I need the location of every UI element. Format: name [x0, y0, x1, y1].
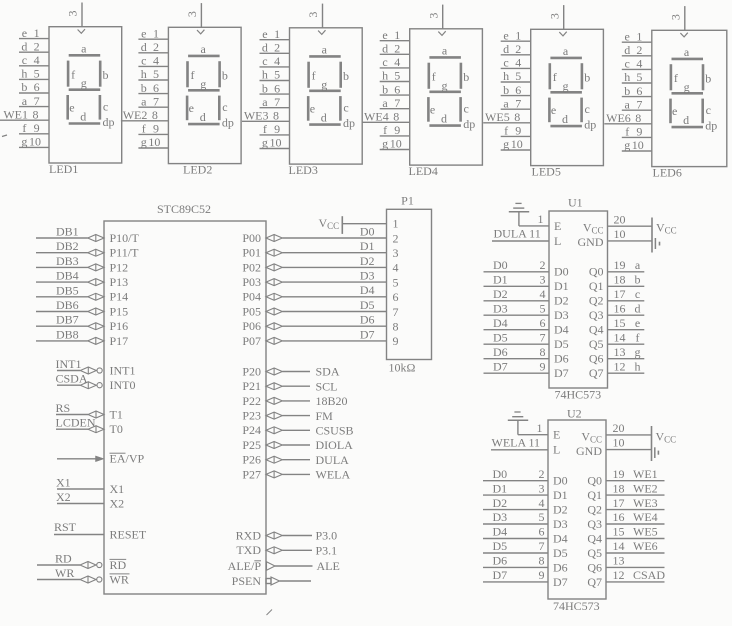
svg-text:4: 4	[153, 54, 159, 68]
LED3 label dp	[343, 116, 355, 130]
LED4 pin 9 (f)	[380, 123, 410, 137]
svg-text:D7: D7	[493, 568, 508, 582]
LED4 segment d	[429, 111, 461, 125]
LED4 segment e	[428, 97, 435, 122]
LED4 pin 3 (common) stub	[426, 5, 442, 29]
svg-text:P01: P01	[242, 246, 261, 260]
svg-text:3: 3	[540, 273, 546, 287]
svg-text:P20: P20	[242, 364, 261, 378]
U2 pin 9 D7	[483, 568, 568, 589]
svg-text:b: b	[343, 69, 349, 83]
LED5 pin 7 (a)	[501, 96, 531, 110]
svg-text:T1: T1	[110, 407, 123, 421]
LED6 pin 8, net WE6	[604, 111, 652, 125]
LED4 pin 1 (e)	[380, 28, 410, 42]
svg-text:e: e	[382, 28, 387, 42]
svg-text:74HC573: 74HC573	[555, 388, 602, 402]
U1 part label 74HC573	[555, 388, 602, 402]
svg-text:Q6: Q6	[589, 352, 604, 366]
svg-text:c: c	[222, 100, 227, 114]
svg-text:U2: U2	[567, 407, 582, 421]
MCU pin P14, net DB5	[36, 283, 128, 303]
LED4 pin 5 (h)	[380, 69, 410, 83]
svg-text:7: 7	[393, 305, 399, 319]
svg-text:a: a	[684, 45, 690, 59]
LED2 label dp	[222, 115, 234, 129]
svg-text:a: a	[201, 42, 207, 56]
U2 pin 8 D6	[483, 554, 568, 575]
svg-text:DB6: DB6	[56, 298, 79, 312]
svg-text:Q3: Q3	[589, 308, 604, 322]
svg-text:17: 17	[613, 496, 625, 510]
svg-text:RST: RST	[54, 520, 77, 534]
svg-text:WELA 11: WELA 11	[492, 435, 541, 449]
svg-text:WE6: WE6	[606, 111, 631, 125]
svg-text:dp: dp	[705, 118, 717, 132]
svg-text:X1: X1	[56, 476, 71, 490]
MCU pin P07, wire to P1 pin 9, net D7	[242, 327, 386, 348]
svg-text:Q0: Q0	[587, 474, 602, 488]
svg-text:e: e	[22, 26, 27, 40]
svg-text:17: 17	[614, 287, 626, 301]
svg-text:D2: D2	[493, 287, 508, 301]
svg-text:c: c	[706, 103, 711, 117]
U1 pin 17 Q2, net c	[589, 287, 644, 308]
LED3 segment e	[308, 96, 315, 121]
svg-text:D1: D1	[554, 279, 569, 293]
svg-text:E: E	[553, 428, 560, 442]
LED6 segment d	[672, 113, 704, 127]
svg-text:a: a	[442, 43, 448, 57]
svg-text:e: e	[625, 29, 630, 43]
svg-text:5: 5	[539, 510, 545, 524]
svg-text:9: 9	[539, 568, 545, 582]
svg-text:LED5: LED5	[532, 165, 561, 179]
svg-text:4: 4	[274, 54, 280, 68]
svg-text:D5: D5	[493, 539, 508, 553]
LED5 pin 1 (e)	[501, 28, 531, 42]
U1 pin 1 E with ground symbol	[509, 203, 562, 232]
MCU pin EA/VP with input arrow	[57, 452, 144, 466]
svg-text:WE4: WE4	[633, 510, 658, 524]
svg-text:P11/T: P11/T	[110, 246, 140, 260]
LED1 pin 6 (b)	[19, 80, 49, 94]
U2 pin 15 Q4, net WE5	[587, 525, 664, 546]
svg-text:18: 18	[613, 481, 625, 495]
MCU pin P13, net DB4	[36, 269, 128, 289]
LED2 segment c	[219, 96, 227, 121]
MCU pin P10/T, net DB1	[36, 225, 140, 245]
svg-text:g: g	[684, 80, 690, 94]
svg-text:P15: P15	[110, 304, 129, 318]
svg-text:RESET: RESET	[110, 527, 147, 541]
svg-text:16: 16	[613, 510, 625, 524]
LED2 pin 3 (common) stub	[185, 3, 201, 27]
MCU pin P22, net 18B20	[242, 394, 347, 408]
svg-text:d: d	[321, 110, 327, 124]
7-segment display LED3	[290, 28, 363, 164]
svg-text:D2: D2	[360, 254, 375, 268]
LED4 pin 7 (a)	[380, 96, 410, 110]
MCU pin P11/T, net DB2	[36, 239, 139, 259]
svg-text:13: 13	[613, 554, 625, 568]
svg-text:d: d	[683, 113, 689, 127]
LED2 segment d	[188, 110, 220, 124]
svg-text:8: 8	[635, 111, 641, 125]
U1 pin 6 D4	[484, 316, 569, 337]
svg-text:g: g	[503, 137, 509, 151]
LED4 segment a	[429, 43, 461, 57]
LED6 pin 3 (common) stub	[668, 6, 684, 30]
svg-text:2: 2	[539, 467, 545, 481]
P1 pin 8	[393, 320, 399, 334]
U2 part label 74HC573	[553, 599, 600, 613]
LED3 pin 2 (d)	[260, 41, 290, 55]
U1 pin 7 D5	[484, 330, 569, 351]
svg-text:5: 5	[540, 301, 546, 315]
LED3 segment g	[309, 77, 341, 91]
P1 pin 1, VCC power port	[319, 216, 399, 234]
svg-text:c: c	[382, 55, 387, 69]
svg-text:4: 4	[636, 57, 642, 71]
svg-text:P23: P23	[242, 409, 261, 423]
svg-text:D0: D0	[553, 474, 568, 488]
svg-text:7: 7	[394, 96, 400, 110]
LED5 name label	[532, 165, 561, 179]
svg-text:2: 2	[394, 42, 400, 56]
svg-text:D1: D1	[553, 488, 568, 502]
LED3 pin 8, net WE3	[242, 109, 290, 123]
svg-text:7: 7	[539, 539, 545, 553]
svg-text:CSDA: CSDA	[56, 372, 88, 386]
svg-text:P03: P03	[242, 275, 261, 289]
svg-text:D1: D1	[360, 239, 375, 253]
LED1 segment g	[69, 76, 101, 90]
svg-text:WE1: WE1	[3, 107, 28, 121]
svg-text:2: 2	[540, 258, 546, 272]
svg-text:P3.0: P3.0	[316, 529, 338, 543]
U2 pin 2 D0	[483, 467, 568, 488]
svg-text:g: g	[321, 77, 327, 91]
svg-text:P07: P07	[242, 334, 261, 348]
svg-text:P22: P22	[242, 394, 261, 408]
svg-text:e: e	[310, 102, 315, 116]
svg-text:b: b	[382, 82, 388, 96]
svg-text:3: 3	[393, 246, 399, 260]
svg-text:3: 3	[668, 14, 682, 20]
LED2 pin 1 (e)	[138, 26, 168, 40]
svg-text:10kΩ: 10kΩ	[389, 361, 416, 375]
U2 pin 7 D5	[483, 539, 568, 560]
MCU pin P01, wire to P1 pin 3, net D1	[242, 239, 386, 260]
svg-text:9: 9	[540, 359, 546, 373]
svg-text:DULA 11: DULA 11	[494, 227, 541, 241]
svg-text:P04: P04	[242, 290, 261, 304]
svg-text:VCC: VCC	[583, 221, 604, 236]
U2 pin 5 D3	[483, 510, 568, 531]
LED5 pin 6 (b)	[501, 83, 531, 97]
P1 pin 5	[393, 275, 399, 289]
LED6 pin 10 (g)	[622, 138, 652, 152]
svg-text:D3: D3	[554, 308, 569, 322]
svg-text:5: 5	[636, 70, 642, 84]
svg-text:L: L	[554, 234, 561, 248]
svg-text:b: b	[103, 68, 109, 82]
LED3 pin 9 (f)	[260, 122, 290, 136]
U1 pin 19 Q0, net a	[589, 258, 644, 279]
svg-text:D6: D6	[493, 554, 508, 568]
LED3 pin 3 (common) stub	[306, 4, 322, 28]
LED5 segment a	[550, 44, 582, 58]
U1 pin 11 L, net DULA	[492, 227, 561, 248]
U2 pin 1 E with ground symbol	[508, 412, 561, 442]
svg-text:5: 5	[515, 69, 521, 83]
svg-text:c: c	[503, 56, 508, 70]
svg-text:P02: P02	[242, 260, 261, 274]
svg-text:D7: D7	[554, 366, 569, 380]
LED5 pin 3 (common) stub	[547, 5, 563, 29]
LED6 pin 2 (d)	[622, 43, 652, 57]
svg-text:19: 19	[613, 467, 625, 481]
svg-text:g: g	[635, 345, 641, 359]
svg-text:WE6: WE6	[633, 539, 658, 553]
svg-text:14: 14	[613, 539, 625, 553]
LED4 pin 8, net WE4	[362, 110, 410, 124]
svg-text:9: 9	[393, 334, 399, 348]
svg-text:g: g	[382, 137, 388, 151]
LED1 pin 3 (common) stub	[66, 3, 82, 27]
svg-text:D4: D4	[554, 323, 569, 337]
svg-text:STC89C52: STC89C52	[157, 202, 211, 216]
svg-text:Q2: Q2	[587, 503, 602, 517]
LED6 pin 7 (a)	[622, 97, 652, 111]
svg-text:b: b	[463, 70, 469, 84]
svg-text:4: 4	[394, 55, 400, 69]
MCU pin P27, net WELA	[242, 467, 350, 481]
svg-text:8: 8	[539, 554, 545, 568]
svg-text:h: h	[503, 69, 509, 83]
svg-text:PSEN: PSEN	[232, 574, 262, 588]
svg-text:Q7: Q7	[587, 575, 602, 589]
stray scan mark left edge	[2, 135, 7, 137]
svg-text:h: h	[21, 67, 27, 81]
svg-text:a: a	[22, 94, 28, 108]
svg-text:12: 12	[613, 568, 625, 582]
svg-text:SCL: SCL	[316, 379, 338, 393]
LED2 pin 5 (h)	[138, 67, 168, 81]
svg-text:VCC: VCC	[319, 216, 340, 231]
svg-text:5: 5	[394, 69, 400, 83]
svg-text:D4: D4	[360, 283, 375, 297]
LED4 name label	[409, 164, 438, 178]
U2 pin 12 Q7, net CSAD	[587, 568, 665, 589]
svg-text:e: e	[262, 27, 267, 41]
LED3 segment c	[340, 96, 348, 121]
svg-text:WE5: WE5	[485, 110, 510, 124]
svg-text:WE2: WE2	[123, 108, 148, 122]
svg-text:8: 8	[33, 107, 39, 121]
LED3 pin 5 (h)	[260, 68, 290, 82]
LED3 segment b	[341, 62, 349, 88]
svg-text:h: h	[382, 69, 388, 83]
svg-text:c: c	[464, 102, 469, 116]
svg-text:8: 8	[393, 320, 399, 334]
svg-text:3: 3	[547, 13, 561, 19]
LED3 pin 10 (g)	[260, 136, 290, 150]
svg-text:L: L	[553, 443, 560, 457]
svg-text:d: d	[635, 301, 641, 315]
svg-text:a: a	[635, 258, 641, 272]
svg-text:1: 1	[393, 217, 399, 231]
svg-text:RXD: RXD	[236, 528, 262, 542]
svg-text:Q6: Q6	[587, 560, 602, 574]
svg-text:Q3: Q3	[587, 517, 602, 531]
svg-text:P1: P1	[401, 194, 414, 208]
svg-text:5: 5	[153, 67, 159, 81]
svg-text:g: g	[563, 79, 569, 93]
svg-text:DB1: DB1	[56, 225, 79, 239]
svg-text:1: 1	[394, 28, 400, 42]
svg-text:d: d	[624, 43, 630, 57]
7-segment display LED2	[168, 27, 241, 163]
svg-text:f: f	[71, 68, 75, 82]
svg-text:g: g	[21, 135, 27, 149]
svg-text:8: 8	[540, 345, 546, 359]
svg-text:WE4: WE4	[364, 110, 389, 124]
svg-text:a: a	[262, 95, 268, 109]
LED1 pin 8, net WE1	[0, 107, 49, 121]
svg-text:10: 10	[270, 136, 282, 150]
svg-text:f: f	[636, 330, 640, 344]
svg-text:3: 3	[539, 481, 545, 495]
svg-text:P05: P05	[242, 304, 261, 318]
svg-text:D0: D0	[554, 265, 569, 279]
svg-text:DB7: DB7	[56, 313, 79, 327]
MCU pin P26, net DULA	[242, 453, 349, 467]
svg-text:WE2: WE2	[633, 481, 658, 495]
svg-text:d: d	[200, 110, 206, 124]
svg-text:f: f	[142, 122, 146, 136]
svg-text:b: b	[624, 84, 630, 98]
svg-text:c: c	[343, 101, 348, 115]
svg-text:VCC: VCC	[656, 221, 677, 236]
svg-text:e: e	[551, 103, 556, 117]
svg-text:WE3: WE3	[244, 109, 269, 123]
MCU pin T0, net LCDEN	[56, 416, 123, 436]
svg-text:9: 9	[274, 122, 280, 136]
svg-text:8: 8	[152, 108, 158, 122]
svg-text:E: E	[554, 219, 561, 233]
LED6 pin 5 (h)	[622, 70, 652, 84]
svg-text:D6: D6	[493, 345, 508, 359]
svg-text:6: 6	[274, 81, 280, 95]
svg-text:18B20: 18B20	[316, 394, 348, 408]
svg-text:P13: P13	[110, 275, 129, 289]
svg-text:4: 4	[393, 261, 399, 275]
microcontroller STC89C52	[104, 202, 266, 594]
MCU pin T1, net RS	[56, 401, 123, 421]
svg-text:a: a	[322, 42, 328, 56]
svg-text:7: 7	[153, 94, 159, 108]
svg-text:DIOLA: DIOLA	[316, 438, 354, 452]
latch U1 74HC573	[549, 195, 608, 388]
svg-text:10: 10	[511, 137, 523, 151]
svg-text:d: d	[503, 42, 509, 56]
svg-text:2: 2	[636, 43, 642, 57]
svg-text:CSUSB: CSUSB	[316, 424, 354, 438]
svg-text:LED2: LED2	[183, 163, 212, 177]
svg-text:f: f	[22, 121, 26, 135]
LED1 pin 5 (h)	[19, 67, 49, 81]
LED4 segment f	[429, 63, 436, 89]
svg-text:DB3: DB3	[56, 254, 79, 268]
svg-text:D6: D6	[554, 352, 569, 366]
LED6 segment g	[672, 80, 704, 94]
P1 pin 7	[393, 305, 399, 319]
LED5 label dp	[584, 117, 596, 131]
svg-text:D7: D7	[553, 575, 568, 589]
U1 pin 9 D7	[484, 359, 569, 380]
LED3 segment f	[309, 62, 316, 88]
svg-text:10: 10	[632, 138, 644, 152]
svg-text:3: 3	[426, 13, 440, 19]
svg-text:P06: P06	[242, 319, 261, 333]
LED1 segment f	[68, 61, 75, 87]
MCU pin WR (active low), net WR	[37, 566, 130, 586]
svg-text:WE1: WE1	[633, 467, 658, 481]
svg-text:g: g	[262, 136, 268, 150]
svg-text:ALE: ALE	[317, 559, 340, 573]
svg-text:b: b	[262, 81, 268, 95]
svg-text:b: b	[584, 71, 590, 85]
svg-text:c: c	[103, 100, 108, 114]
P1 pin 2	[393, 231, 399, 245]
svg-text:a: a	[625, 97, 631, 111]
U1 pin 15 Q4, net e	[589, 316, 644, 337]
svg-text:D2: D2	[553, 503, 568, 517]
svg-text:d: d	[262, 41, 268, 55]
svg-text:P10/T: P10/T	[110, 231, 140, 245]
svg-text:Q1: Q1	[587, 488, 602, 502]
svg-text:GND: GND	[576, 444, 602, 458]
svg-text:12: 12	[614, 359, 626, 373]
MCU pin P00, wire to P1 pin 2, net D0	[242, 224, 386, 245]
svg-text:D3: D3	[493, 510, 508, 524]
MCU pin X1, net X1	[56, 476, 124, 496]
U2 pin 4 D2	[483, 496, 568, 517]
svg-text:DB2: DB2	[56, 239, 79, 253]
svg-text:g: g	[624, 138, 630, 152]
svg-text:9: 9	[515, 124, 521, 138]
LED5 segment g	[550, 79, 582, 93]
MCU pin P05, wire to P1 pin 7, net D5	[242, 298, 386, 319]
LED3 pin 1 (e)	[260, 27, 290, 41]
svg-text:f: f	[553, 70, 557, 84]
svg-text:6: 6	[539, 525, 545, 539]
svg-text:a: a	[81, 41, 87, 55]
svg-text:5: 5	[34, 67, 40, 81]
svg-text:19: 19	[614, 258, 626, 272]
LED2 pin 8, net WE2	[121, 108, 168, 122]
svg-text:b: b	[222, 69, 228, 83]
svg-text:X2: X2	[110, 496, 125, 510]
U1 pin 4 D2	[484, 287, 569, 308]
LED1 pin 4 (c)	[19, 53, 49, 67]
svg-text:D3: D3	[553, 517, 568, 531]
LED2 segment f	[188, 61, 195, 87]
svg-text:INT1: INT1	[110, 363, 136, 377]
P1 value label 10k ohm	[389, 361, 416, 375]
